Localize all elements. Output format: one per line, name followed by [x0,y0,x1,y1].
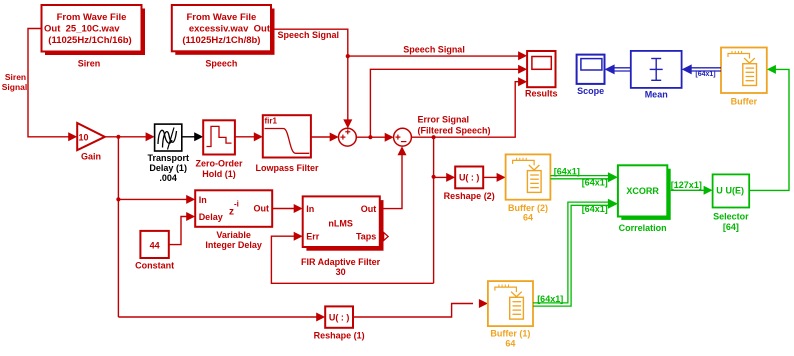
block Buffer (1) [488,281,533,326]
svg-text:Error Signal: Error Signal [418,115,470,125]
wire Lowpass Filter to Sum1 [311,136,332,138]
wire Buffer (2) to XCORR in1 (double) [550,175,609,177]
svg-text:Correlation: Correlation [619,223,667,233]
block Constant 44 [140,231,168,258]
wire Siren to Gain [28,29,70,137]
block Variable Integer Delay [195,190,272,227]
svg-text:[127x1]: [127x1] [671,180,702,190]
block XCORR Correlation [621,169,670,220]
wire Sum1 to Sum2 [356,136,386,138]
node junction to Variable Integer Delay In [116,197,120,201]
block Transport Delay (1) [155,124,182,151]
svg-text:Buffer: Buffer [731,97,758,107]
svg-text:Variable: Variable [216,230,251,240]
wire to Variable Integer Delay In [118,198,188,200]
svg-text:Scope: Scope [577,86,604,96]
svg-text:Lowpass Filter: Lowpass Filter [255,163,319,173]
svg-text:Mean: Mean [645,90,668,100]
svg-text:Reshape (2): Reshape (2) [444,191,495,201]
wire junction down to Sum1 north [347,56,349,121]
svg-text:Selector: Selector [713,212,749,222]
wire Reshape (2) to Buffer (2) [483,176,498,178]
svg-text:U( : ): U( : ) [459,173,480,183]
svg-text:Siren: Siren [78,58,101,68]
svg-text:Results: Results [525,89,558,99]
node junction Speech Signal [346,54,350,58]
svg-text:Reshape (1): Reshape (1) [314,331,365,341]
svg-text:[64x1]: [64x1] [695,71,715,78]
svg-text:-i: -i [234,200,239,209]
block Reshape (1) [325,306,353,327]
block Buffer (2) [506,154,551,199]
wire Sum2 bottom input from FIR Out [380,151,402,209]
svg-text:[64x1]: [64x1] [582,177,608,187]
svg-text:Delay (1): Delay (1) [149,163,187,173]
svg-text:XCORR: XCORR [626,186,659,196]
svg-text:From Wave File: From Wave File [57,12,127,23]
svg-text:FIR Adaptive Filter: FIR Adaptive Filter [301,257,381,267]
svg-text:10: 10 [79,132,89,142]
svg-text:Out: Out [361,204,377,214]
svg-text:64: 64 [505,338,515,348]
svg-text:Signal: Signal [2,82,28,92]
svg-text:Constant: Constant [135,260,174,270]
wire Selector to Buffer top [749,69,789,190]
gain block Gain [77,123,105,150]
wire Mean to Scope (double) [614,67,631,69]
wire XCORR to Selector [671,189,706,191]
wire Buffer top to Mean (double) [691,67,722,69]
svg-text:U(E): U(E) [726,186,745,196]
wire Gain to Transport Delay [105,136,148,138]
block Selector [713,174,750,207]
svg-text:(11025Hz/1Ch/8b): (11025Hz/1Ch/8b) [182,35,260,46]
svg-text:Transport: Transport [147,153,189,163]
wire Error Signal down branch [433,137,435,283]
svg-text:Buffer (2): Buffer (2) [508,203,548,213]
sum block Sum1 [339,128,357,146]
wire Zero-Order Hold to Lowpass Filter [235,136,256,138]
wire Transport Delay to Zero-Order Hold [182,136,196,138]
node junction after Sum1 [368,135,372,139]
svg-text:Speech Signal: Speech Signal [403,45,465,55]
block Speech (From Wave File) [175,9,274,55]
svg-text:[64x1]: [64x1] [582,204,608,214]
svg-text:In: In [306,204,314,214]
node junction to Reshape (2) [432,175,436,179]
svg-text:In: In [199,195,207,205]
svg-text:(Filtered Speech): (Filtered Speech) [418,126,491,136]
scope block Results [527,51,555,87]
svg-text:Taps: Taps [356,231,376,241]
block Siren (From Wave File) [45,9,145,56]
svg-text:64: 64 [523,213,533,223]
svg-text:Hold (1): Hold (1) [202,169,236,179]
block FIR Adaptive Filter [306,200,383,251]
svg-text:nLMS: nLMS [328,218,353,228]
wire Error Signal to FIR Err [271,236,433,283]
node junction Error Signal [432,135,436,139]
svg-text:Siren: Siren [5,72,26,82]
block Lowpass Filter [263,115,311,157]
svg-text:30: 30 [336,267,346,277]
svg-text:.004: .004 [159,173,177,183]
wire Reshape (1) to Buffer (1) [353,304,473,318]
svg-text:From Wave File: From Wave File [186,12,256,23]
svg-text:Speech Signal: Speech Signal [278,30,340,40]
wire to Reshape (2) [434,176,448,178]
svg-text:Out 25_10C.wav: Out 25_10C.wav [44,24,120,35]
block Reshape (2) [455,167,483,189]
block Zero-Order Hold (1) [203,120,235,154]
block Mean [631,51,682,88]
svg-text:U( : ): U( : ) [329,313,350,323]
wire Speech to junction and Sum1 [271,29,348,56]
svg-text:Speech: Speech [205,59,237,69]
svg-text:44: 44 [150,240,160,250]
wire Buffer (1) to XCORR in2 (double) [533,202,610,303]
wire to Reshape (1) [118,316,318,318]
scope block Scope [577,55,605,84]
svg-text:U: U [716,186,723,196]
wire junction up to Results input2 [370,69,520,137]
wire junction to Results input1 [348,55,520,57]
svg-text:Err: Err [306,231,320,241]
svg-text:Gain: Gain [81,152,101,162]
svg-text:(11025Hz/1Ch/16b): (11025Hz/1Ch/16b) [48,35,131,46]
svg-text:excessiv.wav Out: excessiv.wav Out [189,24,271,35]
svg-text:Delay: Delay [199,212,223,222]
wire Variable Integer Delay to FIR In [272,208,295,210]
wire Constant to Delay port [169,217,188,245]
node junction after Gain [116,135,120,139]
svg-text:[64x1]: [64x1] [537,294,563,304]
svg-text:[64x1]: [64x1] [554,166,580,176]
svg-text:Integer Delay: Integer Delay [205,240,262,250]
wire Sum2 to Results input3 (Error Signal) [411,82,520,138]
svg-text:fir1: fir1 [265,117,278,126]
svg-text:Buffer (1): Buffer (1) [490,329,530,339]
svg-text:Out: Out [254,204,270,214]
sum block Sum2 [394,128,412,146]
wire junction down Siren branch [117,137,119,317]
svg-text:[64]: [64] [723,222,739,232]
block Buffer top [721,48,767,94]
svg-text:Zero-Order: Zero-Order [195,158,243,168]
